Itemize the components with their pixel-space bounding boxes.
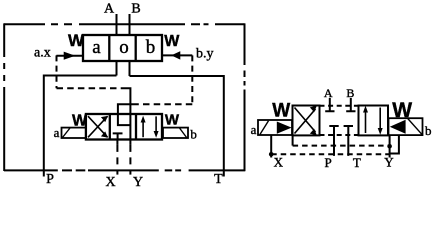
dashed transition box top line xyxy=(320,105,359,107)
svg-text:W: W xyxy=(164,33,180,50)
right valve left box (crossed arrows) xyxy=(293,106,320,136)
svg-text:W: W xyxy=(272,100,290,121)
enclosure top chain line xyxy=(4,23,245,25)
svg-text:W: W xyxy=(68,31,85,50)
svg-text:b.y: b.y xyxy=(196,47,214,62)
svg-text:T: T xyxy=(214,172,223,187)
svg-text:P: P xyxy=(46,172,54,187)
wire X line from solenoid a down xyxy=(270,135,272,158)
dashed pilot wire from b.y down xyxy=(191,55,193,104)
wire port B down to main valve xyxy=(129,14,131,35)
port T stub with blocked bar xyxy=(344,126,353,156)
dashed pilot drain line upper xyxy=(293,145,390,147)
wire X: pilot supply dashed down to port X xyxy=(116,140,118,175)
down arrow xyxy=(378,108,383,135)
pilot valve crossed-arrows position (left box) xyxy=(88,116,108,138)
enclosure bottom chain line xyxy=(4,169,245,171)
main valve V1 body (3 position boxes a o b) xyxy=(83,35,162,61)
solenoid b box of pilot valve xyxy=(163,128,188,138)
wire P run left and down to port P xyxy=(44,76,117,177)
wire T stub below main valve xyxy=(129,61,131,76)
svg-text:W: W xyxy=(72,112,88,129)
wire P stub below main valve xyxy=(116,61,118,76)
svg-text:o: o xyxy=(119,37,129,58)
port P stub with blocked bar xyxy=(329,126,338,156)
wire T run right and down to port T xyxy=(130,76,224,177)
crossed arrows in left box xyxy=(295,106,317,135)
wire Y: pilot drain dashed down to port Y xyxy=(129,140,131,175)
svg-text:Y: Y xyxy=(133,175,143,190)
pilot valve parallel-arrows position (right box): down arrow xyxy=(154,116,159,137)
svg-text:X: X xyxy=(105,175,115,190)
up arrow xyxy=(363,106,368,133)
svg-text:T: T xyxy=(353,155,361,170)
svg-text:a: a xyxy=(54,125,60,140)
pilot valve centre position: A to T jog xyxy=(118,114,130,125)
solenoid a box of pilot valve xyxy=(62,128,86,138)
dashed pilot wire a.x horizontal run xyxy=(57,87,127,89)
pilot line b.y with arrowhead into main valve xyxy=(162,52,192,59)
svg-text:a.x: a.x xyxy=(34,46,51,61)
wire drain elbow from solenoid b xyxy=(390,135,399,153)
right valve right box (parallel arrows) xyxy=(359,106,389,136)
pilot valve V2 body (3 boxes) xyxy=(86,114,162,140)
svg-text:Y: Y xyxy=(384,155,394,170)
wire Y line from solenoid b down xyxy=(389,135,391,157)
dashed transition box bottom line xyxy=(320,134,359,136)
pilot line a.x with arrowhead into main valve xyxy=(56,52,83,59)
svg-text:B: B xyxy=(346,86,354,100)
pilot valve centre position: B-T through line xyxy=(129,114,131,140)
enclosure left chain line xyxy=(3,23,5,171)
junction dot on Y line xyxy=(387,144,392,149)
solenoid-pilot actuator b (right) xyxy=(389,118,423,135)
pilot wire corner into pilot valve port B xyxy=(126,88,130,114)
dashed pilot wire b.y horizontal run xyxy=(134,103,192,105)
svg-text:A: A xyxy=(324,86,333,100)
svg-text:A: A xyxy=(104,2,115,17)
wire port A down to main valve xyxy=(116,14,118,35)
svg-text:W: W xyxy=(392,99,412,122)
svg-text:W: W xyxy=(165,112,180,129)
pilot wire corner into pilot valve port A xyxy=(118,104,134,114)
svg-text:X: X xyxy=(274,155,284,170)
wire drain elbow from solenoid a xyxy=(292,135,294,146)
svg-text:a: a xyxy=(92,37,101,58)
svg-text:b: b xyxy=(190,127,197,142)
solenoid-pilot actuator a (left) xyxy=(258,120,292,135)
svg-text:B: B xyxy=(131,2,140,17)
port A line with blocked bar xyxy=(325,98,334,111)
pilot valve centre position: P blocked symbol xyxy=(113,133,123,139)
junction dot on X line xyxy=(269,152,274,157)
dashed pilot drain line lower from X dot xyxy=(271,153,389,155)
dashed pilot wire from a.x down xyxy=(56,55,58,88)
enclosure right chain line xyxy=(244,23,246,171)
pilot valve parallel-arrows position (right box): up arrow xyxy=(141,116,146,137)
svg-text:a: a xyxy=(251,122,257,137)
svg-text:P: P xyxy=(324,155,331,170)
svg-text:b: b xyxy=(425,123,432,138)
port B line with blocked bar xyxy=(346,98,355,111)
svg-text:b: b xyxy=(146,37,156,58)
